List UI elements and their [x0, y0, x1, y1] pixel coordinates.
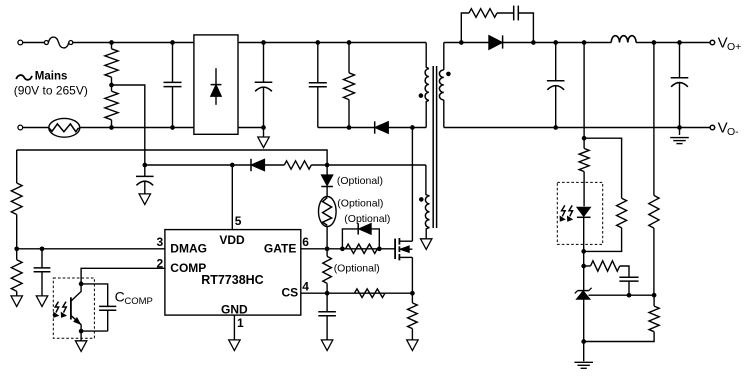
node compensation tap — [581, 264, 586, 269]
node X-cap bottom — [170, 125, 175, 130]
node CS cap junction — [325, 291, 330, 296]
capacitor output 2 — [671, 43, 689, 128]
resistor feedback divider upper — [649, 195, 659, 295]
node divider bottom — [109, 125, 114, 130]
label Vo- — [718, 120, 740, 138]
node MOSFET drain top — [410, 125, 415, 130]
node clamp resistor top — [347, 40, 352, 45]
node feedback branch top — [582, 40, 587, 45]
optocoupler LED — [577, 207, 591, 251]
svg-text:1: 1 — [237, 316, 244, 330]
svg-text:CS: CS — [282, 286, 299, 300]
wire resistor to optional-chain junction — [311, 164, 327, 166]
svg-text:COMP: COMP — [124, 296, 152, 307]
svg-text:VDD: VDD — [219, 233, 245, 247]
terminal Vo- — [710, 125, 715, 130]
ground DMAG divider — [11, 296, 22, 307]
diode clamp D1 — [375, 121, 389, 133]
node TL431 anode ground — [581, 339, 586, 344]
resistor feedback divider lower — [584, 295, 660, 341]
capacitor CS filter — [318, 293, 336, 340]
terminal Vo+ — [710, 40, 715, 45]
node snubber return — [531, 40, 536, 45]
svg-text:O+: O+ — [727, 41, 741, 53]
ground DMAG cap — [36, 296, 47, 307]
resistor VDD charge — [284, 161, 311, 169]
wire left divider drop — [16, 150, 18, 183]
label VDD — [219, 233, 245, 247]
wire Vo+ to opto branch — [583, 43, 585, 149]
svg-text:COMP: COMP — [170, 261, 206, 275]
svg-text:O-: O- — [727, 126, 739, 138]
wire secondary bottom rail — [444, 127, 712, 129]
node clamp bottom — [347, 125, 352, 130]
svg-text:(Optional): (Optional) — [344, 213, 390, 225]
transformer auxiliary winding — [425, 165, 429, 239]
node VDD pin tap — [230, 163, 235, 168]
label Vo+ — [718, 35, 742, 53]
pin 3 DMAG wire — [17, 248, 165, 250]
svg-text:DMAG: DMAG — [170, 241, 207, 255]
polarity dot primary — [419, 93, 424, 98]
resistor current sense — [408, 293, 418, 340]
capacitor output 1 — [547, 43, 565, 128]
label GND — [221, 303, 248, 317]
light arrows LED — [560, 205, 572, 221]
svg-text:Mains: Mains — [35, 71, 68, 83]
ground bulk cap — [258, 128, 269, 148]
transistor opto NPN — [71, 284, 81, 331]
svg-text:(Optional): (Optional) — [337, 197, 383, 209]
wire top rail bridge to transformer primary top — [238, 42, 426, 44]
label CS — [282, 286, 299, 300]
node divider tap — [109, 83, 114, 88]
transistor Q1 MOSFET — [395, 128, 412, 294]
node output cap2 bottom — [677, 125, 682, 130]
transformer primary winding — [425, 43, 429, 128]
svg-text:GATE: GATE — [264, 241, 296, 255]
polarity dot secondary — [446, 72, 451, 77]
pin 1 GND wire — [233, 315, 235, 340]
node COMP collector — [79, 282, 84, 287]
resistor gate drive — [346, 244, 378, 253]
wire parallel branch top — [584, 138, 622, 198]
diode output rectifier — [489, 35, 503, 49]
resistor opto series — [579, 148, 589, 206]
label DMAG — [170, 241, 207, 255]
svg-text:C: C — [115, 289, 125, 305]
resistor opto parallel — [584, 198, 627, 251]
node ref divider junction — [652, 293, 657, 298]
label pin 3 — [157, 235, 164, 249]
terminal AC line + — [18, 40, 23, 45]
pin 6 GATE wire — [301, 248, 395, 250]
node MOSFET source — [410, 291, 415, 296]
shunt regulator TL431 — [575, 288, 592, 342]
label optional 2 — [337, 197, 383, 209]
capacitor clamp — [309, 43, 327, 128]
capacitor X input — [164, 43, 182, 128]
terminal AC neutral — [18, 125, 23, 130]
ground output earth — [670, 128, 689, 144]
resistor DMAG lower — [11, 249, 22, 296]
node DMAG junction — [14, 246, 19, 251]
node secondary snubber tap — [459, 40, 464, 45]
label optional 1 — [337, 175, 383, 187]
node compensation to ref — [627, 293, 632, 298]
svg-text:(Optional): (Optional) — [337, 175, 383, 187]
svg-text:(Optional): (Optional) — [334, 263, 380, 275]
svg-text:RT7738HC: RT7738HC — [201, 273, 264, 287]
node opto emitter — [79, 329, 84, 334]
label pin 1 — [237, 316, 244, 330]
resistor CS filter — [354, 289, 385, 298]
node X-cap top — [170, 40, 175, 45]
label pin 6 — [302, 235, 309, 249]
wire TL431 ref line — [589, 294, 655, 296]
svg-text:3: 3 — [157, 235, 164, 249]
transformer secondary winding — [439, 43, 443, 128]
capacitor C_COMP — [81, 284, 116, 331]
label C_COMP — [115, 289, 153, 307]
capacitor compensation — [619, 277, 638, 295]
optocoupler transistor box — [53, 278, 94, 338]
label pin 4 — [302, 280, 309, 294]
optocoupler LED box — [557, 182, 602, 244]
ground sense resistor — [407, 340, 418, 351]
node DMAG cap tap — [40, 246, 45, 251]
diode gate parallel branch — [342, 223, 379, 249]
fuse F1 — [44, 37, 72, 48]
label Mains — [14, 71, 88, 98]
pin 4 CS wire — [301, 292, 413, 294]
node bulk cap bottom — [261, 125, 266, 130]
wire terminal to fuse — [22, 42, 44, 44]
node opto branch split — [582, 136, 587, 141]
svg-text:2: 2 — [157, 256, 164, 270]
node output cap2 top — [677, 40, 682, 45]
capacitor VDD electrolytic — [136, 165, 154, 194]
op-amp controller U1 RT7738HC box — [165, 230, 301, 316]
inductor output filter — [611, 36, 636, 43]
ground CS cap — [321, 340, 332, 351]
wire cathode to TL431 — [583, 251, 585, 290]
label GATE — [264, 241, 296, 255]
capacitor DMAG filter — [34, 249, 51, 296]
node gate chain junction — [325, 246, 330, 251]
node bulk cap top — [261, 40, 266, 45]
resistor DMAG upper — [11, 183, 22, 249]
ground opto emitter — [75, 331, 86, 351]
node gate diode right — [377, 246, 382, 251]
wire mains bottom rail NTC to bridge — [80, 127, 194, 129]
label RT7738HC — [201, 273, 264, 287]
ground GND pin — [229, 340, 240, 351]
resistor gate optional — [323, 249, 332, 293]
svg-text:GND: GND — [221, 303, 248, 317]
pin 2 COMP wire — [81, 268, 165, 284]
snubber secondary RC — [461, 6, 533, 43]
polarity dot auxiliary — [419, 197, 424, 202]
thermistor NTC — [49, 118, 80, 137]
diode optional TVS — [321, 165, 333, 197]
resistor clamp — [344, 43, 355, 128]
resistor compensation — [584, 261, 629, 277]
capacitor bulk electrolytic — [255, 43, 273, 128]
node gate diode left — [340, 246, 345, 251]
wire mains bottom rail terminal side — [22, 127, 48, 129]
wire divider tap to VDD startup — [112, 85, 145, 165]
ground VDD cap — [139, 194, 150, 205]
wire rectifier to output — [503, 42, 710, 44]
wire aux winding line — [327, 164, 426, 166]
svg-text:(90V to 265V): (90V to 265V) — [14, 83, 88, 97]
resistor input divider lower — [105, 85, 118, 128]
wire bridge bottom output to bulk cap — [238, 127, 264, 129]
pin 5 VDD — [231, 165, 233, 230]
node output cap1 bottom — [553, 125, 558, 130]
light arrows transistor — [54, 302, 67, 318]
node optional chain top — [325, 163, 330, 168]
wire divider from output — [653, 43, 655, 196]
svg-text:4: 4 — [302, 280, 309, 294]
wire VDD diode to resistor — [265, 164, 285, 166]
node VDD cap — [142, 163, 147, 168]
label optional 3 — [344, 213, 390, 225]
wire aux/VDD supply line y150 — [17, 150, 327, 165]
label optional 4 — [334, 263, 380, 275]
node clamp cap top — [315, 40, 320, 45]
bridge rectifier BD1 — [194, 35, 238, 134]
wire VDD node line — [145, 164, 251, 166]
transformer core — [433, 66, 436, 228]
node opto cathode junction — [581, 249, 586, 254]
svg-text:6: 6 — [302, 235, 309, 249]
surge absorber optional — [319, 197, 337, 249]
label pin 2 — [157, 256, 164, 270]
label COMP — [170, 261, 206, 275]
label pin 5 — [235, 214, 242, 228]
ground TL431 earth — [574, 342, 593, 369]
diode VDD charge — [251, 159, 265, 171]
node divider top — [109, 40, 114, 45]
node output cap1 top — [553, 40, 558, 45]
node inductor out / divider top — [652, 40, 657, 45]
resistor input divider upper — [105, 43, 118, 86]
svg-text:5: 5 — [235, 214, 242, 228]
wire top rail from fuse to bridge — [73, 42, 194, 44]
wire RCD clamp bottom line — [318, 127, 426, 129]
ground auxiliary winding — [421, 239, 432, 250]
wire secondary top rail — [444, 42, 489, 44]
